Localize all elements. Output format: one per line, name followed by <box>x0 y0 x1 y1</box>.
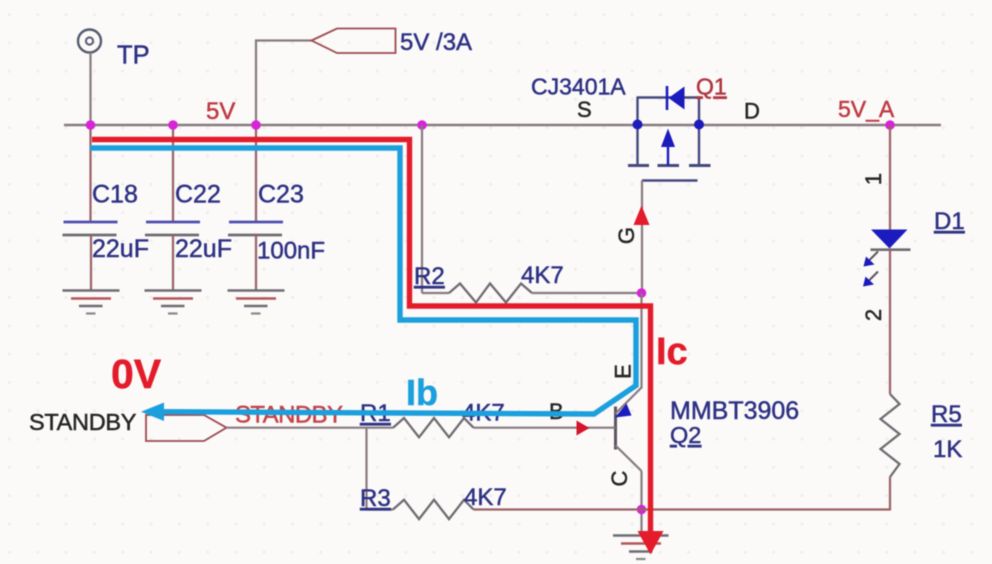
wire C18 lower lead <box>90 235 92 291</box>
node dot gate/R2/emitter <box>637 288 647 298</box>
annotation base arrow (red, right) <box>577 421 590 436</box>
wire R5 bottom lead <box>889 477 891 511</box>
wire Q1 gate lead <box>641 181 643 294</box>
resistor R2 <box>449 284 532 303</box>
annotation Ib path (blue) <box>90 148 636 414</box>
wire C22 lower lead <box>172 235 174 291</box>
wire R3 left lead <box>367 508 394 510</box>
wire C18 upper lead <box>89 125 91 222</box>
wire TP lead <box>89 53 91 126</box>
wire C22 upper lead <box>172 125 174 222</box>
node dot collector <box>637 505 647 515</box>
wire C23 upper lead <box>255 125 257 222</box>
wire Q2 emitter vertical <box>640 293 642 389</box>
annotation Ic path (red) <box>92 140 651 540</box>
wire R1-R3 tie vertical <box>365 428 367 510</box>
svg-text:1: 1 <box>861 173 886 185</box>
wire R2 left lead <box>422 292 449 294</box>
svg-text:22uF: 22uF <box>92 235 149 263</box>
svg-text:5V /3A: 5V /3A <box>400 29 472 56</box>
svg-text:Q1: Q1 <box>696 74 727 100</box>
wire 5V bus <box>64 124 941 126</box>
svg-text:C22: C22 <box>175 181 221 209</box>
svg-text:5V_A: 5V_A <box>838 96 895 122</box>
OVERLAY <box>90 140 688 555</box>
annotation gate arrow (red, up) <box>634 206 650 226</box>
svg-text:R2: R2 <box>414 263 445 290</box>
svg-text:1K: 1K <box>933 436 962 463</box>
svg-text:S: S <box>577 97 592 122</box>
capacitor C23 <box>228 222 283 235</box>
port STANDBY flag <box>146 415 227 441</box>
svg-text:2: 2 <box>861 309 886 321</box>
node dot 5V_A <box>885 120 895 130</box>
ground under Q2 <box>613 536 669 560</box>
annotation Ic arrowhead <box>638 531 664 555</box>
Q1 bulk arrow <box>661 129 675 166</box>
resistor R1 <box>393 418 474 437</box>
svg-text:R3: R3 <box>360 485 391 512</box>
D1 led arrow 1 <box>864 252 879 267</box>
diode D1 (LED) <box>871 230 911 250</box>
test point TP <box>78 30 101 53</box>
Q2 emitter arrow (PNP) <box>615 404 632 418</box>
svg-text:C: C <box>607 470 632 486</box>
ground under C22 <box>145 291 202 314</box>
svg-text:5V: 5V <box>206 98 235 125</box>
wire Q2 collector vertical <box>640 471 642 533</box>
pin dot S <box>633 120 643 130</box>
svg-text:4K7: 4K7 <box>464 484 507 511</box>
pin dot D <box>694 120 704 130</box>
svg-text:D: D <box>744 99 760 124</box>
D1 led arrow 2 <box>863 272 878 287</box>
capacitor C22 <box>145 222 200 235</box>
node dot C22 <box>168 120 178 130</box>
svg-text:D1: D1 <box>934 208 965 235</box>
svg-text:4K7: 4K7 <box>521 262 564 289</box>
svg-text:E: E <box>611 364 636 379</box>
resistor R5 <box>881 394 900 477</box>
svg-text:MMBT3906: MMBT3906 <box>670 397 799 425</box>
wire R3 to collector and R5 <box>474 508 891 510</box>
svg-text:0V: 0V <box>111 351 162 397</box>
ground under C23 <box>228 291 285 314</box>
op... mosfet Q1 body <box>628 98 711 181</box>
ground under C18 <box>63 291 120 314</box>
annotation Ib arrowhead <box>141 403 164 422</box>
svg-text:C18: C18 <box>92 181 138 209</box>
node dot C23/port <box>251 120 261 130</box>
transistor Q2 <box>616 388 642 472</box>
svg-text:G: G <box>614 227 639 244</box>
wire R2 branch vertical <box>421 125 423 293</box>
wire D1 anode lead <box>889 125 891 230</box>
svg-text:Ib: Ib <box>406 372 438 413</box>
wire STANDBY to R1 <box>227 427 394 429</box>
capacitor C18 <box>63 222 118 235</box>
resistor R3 <box>393 500 474 519</box>
node dot R2 branch <box>417 120 427 130</box>
svg-text:Q2: Q2 <box>670 422 701 448</box>
wire D1 cathode to R5 <box>889 250 891 394</box>
svg-text:22uF: 22uF <box>175 235 232 263</box>
wire riser to 5V/3A port <box>256 41 312 126</box>
port 5V/3A flag <box>312 29 396 54</box>
wire C23 lower lead <box>255 235 257 291</box>
node dot TP/C18 <box>86 120 96 130</box>
Q1 body diode <box>667 86 685 110</box>
svg-text:TP: TP <box>117 42 150 70</box>
svg-text:CJ3401A: CJ3401A <box>531 74 626 100</box>
svg-text:Ic: Ic <box>656 331 688 373</box>
svg-text:100nF: 100nF <box>257 238 325 265</box>
wire Q2 base lead <box>474 427 616 429</box>
svg-text:STANDBY: STANDBY <box>29 409 137 435</box>
svg-text:C23: C23 <box>258 181 304 209</box>
svg-text:R5: R5 <box>931 401 962 428</box>
wire R2 right lead <box>532 292 642 294</box>
